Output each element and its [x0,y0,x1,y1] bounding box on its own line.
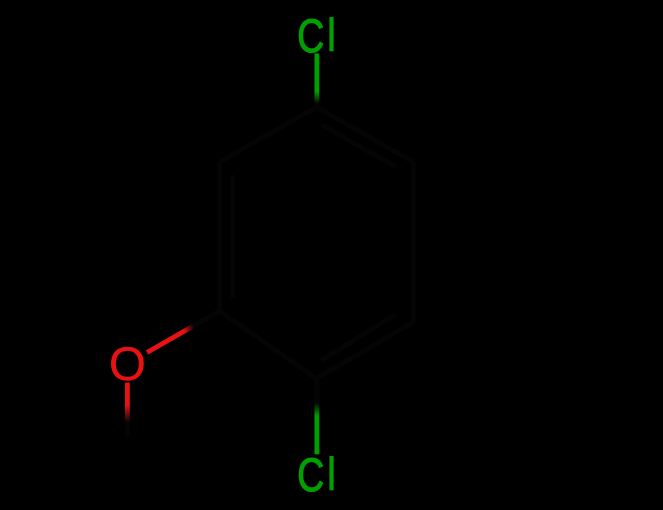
atom label Cl (top): letter C [297,10,324,63]
benzene ring edge C3-C4 (lower-right to bottom vertex) [317,322,414,379]
benzene ring edge C4-C5 (bottom vertex to lower-left) [220,311,317,379]
svg-text:C: C [297,449,324,502]
benzene ring edge C1-C2 (top vertex to upper-right) [317,107,414,162]
svg-text:C: C [297,10,324,63]
atom label O (methoxy oxygen) [109,338,146,391]
benzene ring edge C5-C6 (left vertical) [217,162,222,311]
svg-text:l: l [326,449,337,502]
svg-text:l: l [326,9,337,62]
svg-text:O: O [109,338,146,391]
bond C1-Cl top chlorine, green-to-black gradient [314,54,319,108]
benzene ring edge C2-C3 (right vertical) [411,162,416,322]
benzene ring double bond inner line C3=C4 [321,315,396,361]
bond O-CH3 methyl, red-to-black gradient [125,383,130,437]
benzene ring double bond inner line C5=C6 [230,175,235,298]
atom label Cl (bottom): letter C [297,449,324,502]
bond C4-Cl bottom chlorine, green-to-black gradient [314,379,319,455]
atom label Cl (bottom): letter l [326,449,337,502]
benzene ring double bond inner line C1=C2 [321,125,395,167]
bond C5-O methoxy, red-to-black gradient [147,311,219,352]
benzene ring edge C6-C1 (upper-left to top vertex) [220,107,317,162]
atom label Cl (top): letter l [326,9,337,62]
